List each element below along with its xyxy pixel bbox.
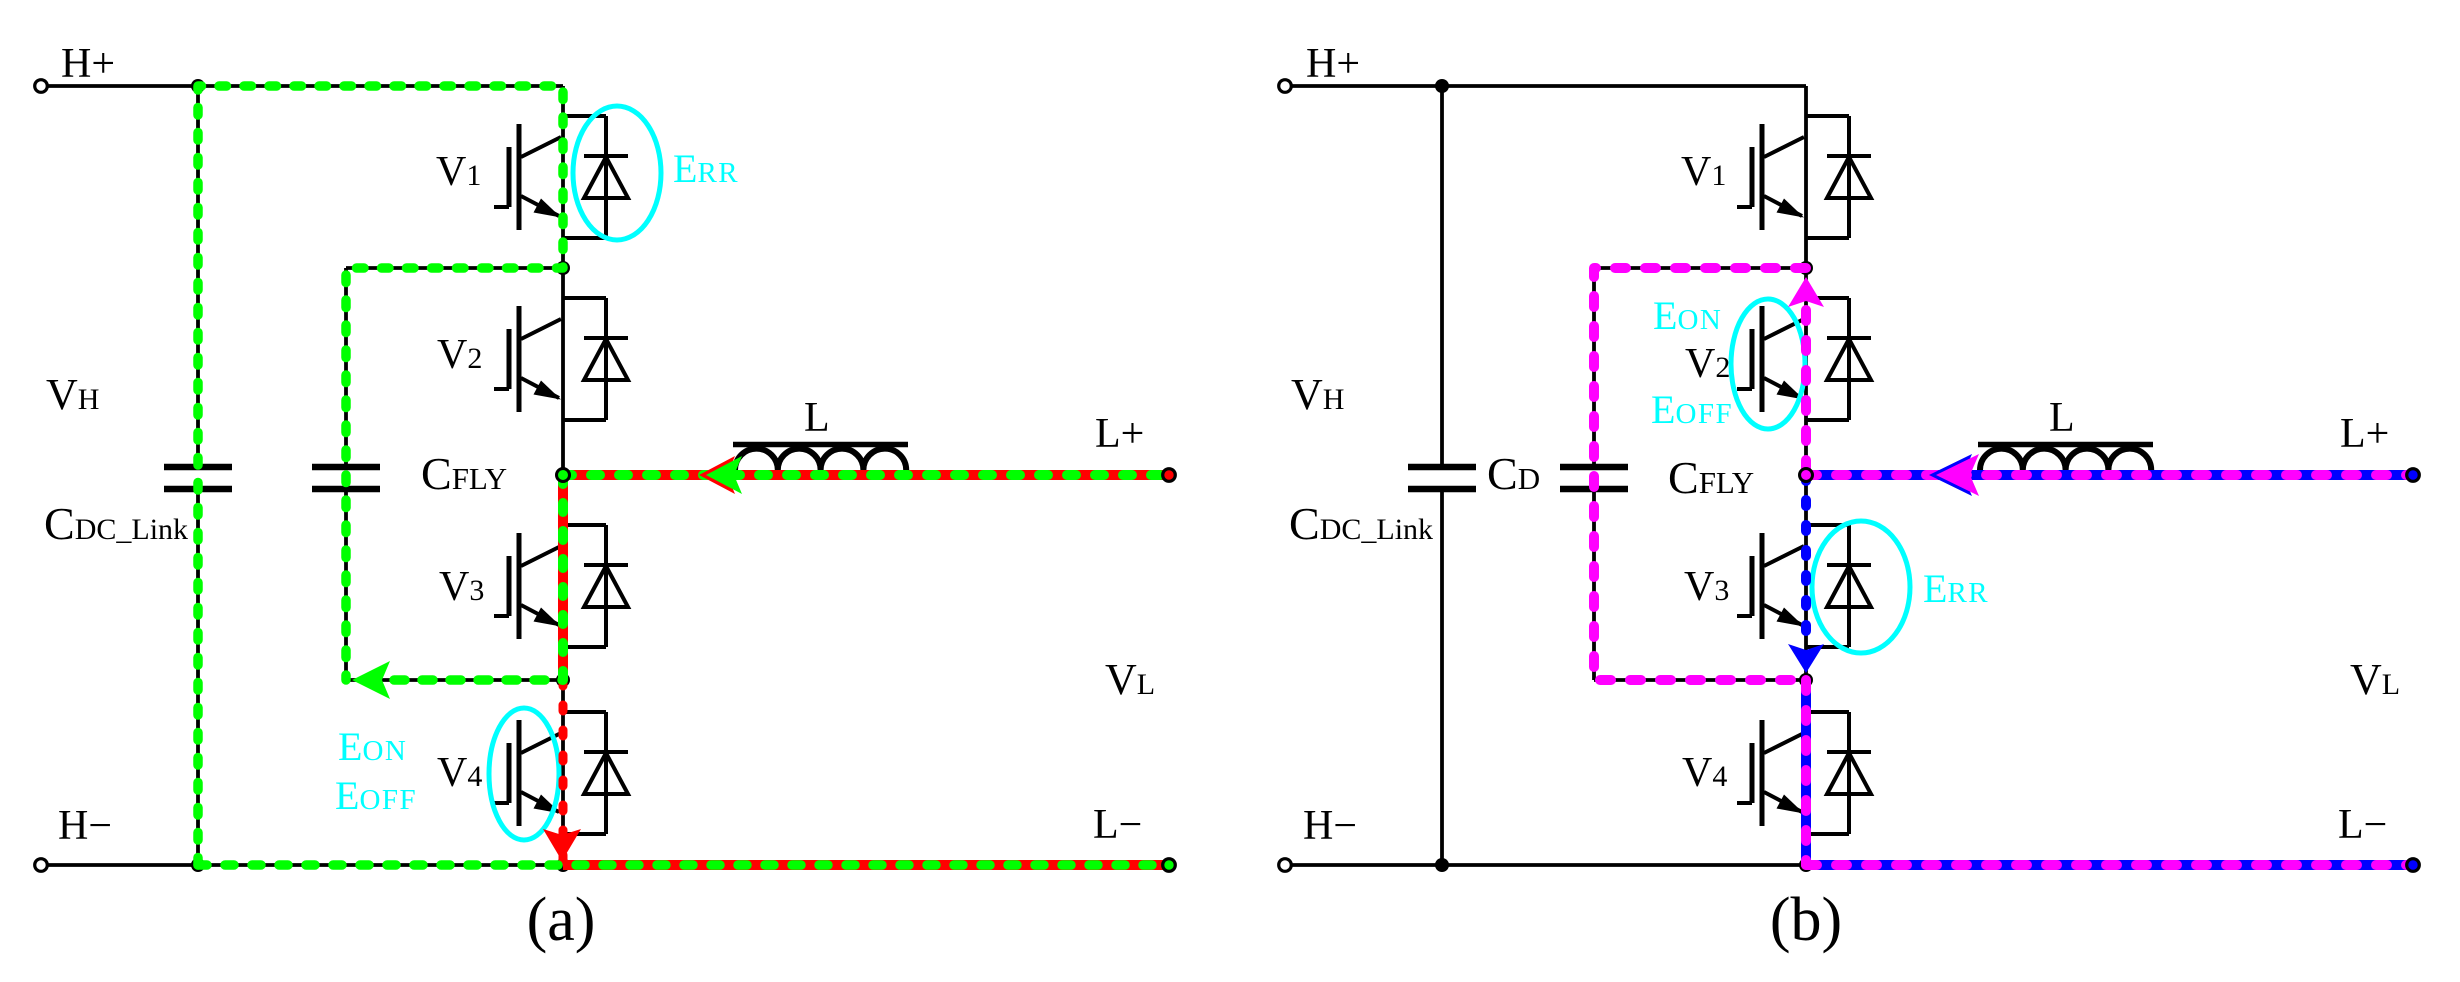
node V1-V2 junction (b) (1799, 261, 1813, 275)
red load path under bottom rail right (563, 860, 1169, 870)
switch node ring (a) (557, 469, 570, 482)
green dashed path on L+ wire (563, 470, 1169, 480)
svg-text:L+: L+ (1095, 411, 1144, 457)
node H+/C_DC_Link junction (b) (1435, 79, 1449, 93)
node V1-V2 junction (a) (556, 261, 570, 275)
blue load path under L+ wire (b) (1806, 470, 2413, 480)
blue dashed path on column V3 (b) (1801, 475, 1811, 642)
terminal L- (a) (1163, 859, 1176, 872)
wire H+ terminal to junction (47, 84, 198, 88)
diode of V1 (b) (1806, 116, 1871, 238)
magenta dashed path on column V2 (b) (1801, 310, 1811, 475)
svg-text:L: L (2049, 395, 2075, 441)
wire C_FLY top link (346, 266, 563, 270)
magenta arrowhead up on column V2 (b) (1788, 277, 1824, 307)
node C_DC_Link bottom junction (b) (1435, 858, 1449, 872)
magenta dashed path on bottom rail right (b) (1806, 860, 2413, 870)
svg-text:L−: L− (2338, 802, 2387, 848)
wire top rail to column (198, 84, 563, 88)
wire C_FLY bottom link (346, 678, 563, 682)
diode of V3 (a) (563, 525, 628, 647)
wire C_D top link (b) (1594, 266, 1806, 270)
wire C_FLY lower leg (344, 489, 348, 680)
ellipse E_RR around V1 diode (a) (573, 106, 661, 240)
green arrowhead on C_FLY bottom link (a) (352, 661, 390, 699)
diode of V4 (b) (1806, 712, 1871, 834)
node H+/C_DC_Link junction (a) (191, 79, 205, 93)
inductor L (a) (733, 445, 908, 471)
wire bottom rail (198, 863, 1169, 867)
wire switch column (b) (1804, 86, 1808, 865)
svg-text:H−: H− (58, 803, 112, 849)
terminal L- (b) (2407, 859, 2420, 872)
green dashed path on column V3 (558, 475, 568, 680)
wire C_FLY upper leg (344, 268, 348, 467)
capacitor C_FLY (a) (312, 467, 380, 489)
node C_DC_Link bottom junction (a) (191, 858, 205, 872)
wire inductor lead L+ (b) (1806, 473, 2413, 477)
node V3-V4 junction (a) (556, 673, 570, 687)
wire C_D upper leg (b) (1592, 268, 1596, 467)
blue load path under column V4 (b) (1801, 680, 1811, 865)
red dashed path on column V4 (559, 680, 568, 865)
wire inductor lead L+ (563, 473, 1169, 477)
wire H- terminal to junction (47, 863, 198, 867)
wire C_DC_Link upper leg (196, 86, 200, 467)
diode of V2 (b) (1806, 298, 1871, 420)
diode of V2 (a) (563, 298, 628, 420)
capacitor C_D (b) (1560, 467, 1628, 489)
blue arrowhead on L+ wire (b) (1929, 454, 1972, 496)
svg-text:L: L (804, 395, 830, 441)
svg-text:L−: L− (1093, 802, 1142, 848)
inductor L (b) (1978, 445, 2153, 471)
magenta dashed path on column V4 (b) (1801, 680, 1811, 865)
transistor V3 (b) (1737, 533, 1804, 639)
node column/bottom rail junction (b) (1799, 858, 1813, 872)
ellipse E_RR around V3 diode (b) (1812, 521, 1910, 653)
magenta dashed path on L+ wire (b) (1806, 470, 2413, 480)
node column/bottom rail junction (a) (556, 858, 570, 872)
capacitor C_DC_Link (a) (164, 467, 232, 489)
red load path under column V3 (558, 475, 568, 680)
svg-text:H+: H+ (1306, 41, 1360, 87)
switch node ring (b) (1800, 469, 1813, 482)
terminal H+ (a) (35, 80, 48, 93)
transistor V3 (a) (494, 533, 561, 639)
ellipse E_ON/E_OFF around V4 IGBT (a) (489, 708, 559, 840)
node V3-V4 junction (b) (1799, 673, 1813, 687)
green dashed segment on C_FLY bottom link (394, 675, 563, 685)
blue load path under bottom rail right (b) (1806, 860, 2413, 870)
red load path under L+ wire (563, 470, 1169, 480)
transistor V2 (a) (494, 306, 561, 412)
wire top rail to column (b) (1442, 84, 1806, 88)
diode of V4 (a) (563, 712, 628, 834)
svg-text:(b): (b) (1770, 886, 1842, 954)
blue arrowhead down on column V3 (b) (1788, 644, 1824, 673)
green dashed path on bottom rail (198, 860, 1169, 870)
green dashed loop: C_DC_Link leg, top rail, V1, C_FLY branch (198, 86, 563, 865)
terminal H+ (b) (1279, 80, 1292, 93)
wire C_D lower leg (b) (1592, 489, 1596, 680)
transistor V2 (b) (1737, 306, 1804, 412)
wire switch column (561, 86, 565, 865)
wire C_DC_Link upper leg (b) (1440, 86, 1444, 467)
diode of V3 (b) (1806, 525, 1871, 647)
capacitor C_DC_Link (b) (1408, 467, 1476, 489)
svg-text:L+: L+ (2340, 411, 2389, 457)
wire C_D bottom link (b) (1594, 678, 1806, 682)
red arrowhead on L+ wire (a) (699, 456, 735, 494)
transistor V4 (b) (1737, 720, 1804, 826)
svg-text:H−: H− (1303, 803, 1357, 849)
terminal H- (b) (1279, 859, 1292, 872)
magenta dashed commutation loop (b) (1594, 268, 1806, 680)
diode of V1 (a) (563, 116, 628, 238)
terminal H- (a) (35, 859, 48, 872)
svg-text:H+: H+ (61, 41, 115, 87)
wire C_DC_Link lower leg (196, 489, 200, 865)
ellipse E_ON/E_OFF around V2 IGBT (b) (1731, 299, 1805, 429)
wire bottom rail (b) (1442, 863, 2413, 867)
transistor V1 (b) (1737, 124, 1804, 230)
terminal L+ (b) (2407, 469, 2420, 482)
green arrowhead on L+ wire (a) (706, 456, 742, 494)
red arrowhead down on column V4 (a) (543, 829, 581, 861)
wire H+ terminal to junction (b) (1291, 84, 1442, 88)
terminal L+ (a) (1163, 469, 1176, 482)
wire C_DC_Link lower leg (b) (1440, 489, 1444, 865)
wire H- terminal to junction (b) (1291, 863, 1442, 867)
transistor V1 (a) (494, 124, 561, 230)
svg-text:(a): (a) (527, 886, 596, 954)
magenta arrowhead on L+ wire (b) (1936, 454, 1979, 496)
transistor V4 (a) (494, 720, 561, 826)
